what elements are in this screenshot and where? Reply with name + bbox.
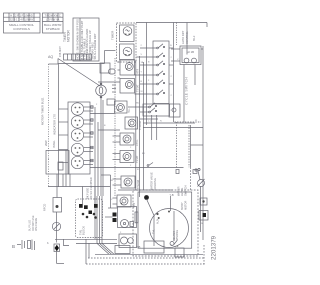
svg-text:B: B bbox=[12, 244, 15, 249]
svg-text:TML: TML bbox=[153, 228, 156, 234]
svg-text:Y-B: Y-B bbox=[170, 193, 174, 197]
svg-text:BK-2: BK-2 bbox=[193, 35, 196, 41]
svg-text:HI-L: HI-L bbox=[128, 108, 131, 113]
svg-text:156 MOT: 156 MOT bbox=[58, 46, 62, 57]
svg-text:BK FUSE: BK FUSE bbox=[86, 188, 90, 199]
svg-text:S2 B 1 2 4 F L0WAY: S2 B 1 2 4 F L0WAY bbox=[10, 18, 34, 22]
svg-text:SB ALL PRGRM DRY: SB ALL PRGRM DRY bbox=[93, 33, 97, 59]
svg-text:THERM: THERM bbox=[139, 121, 142, 130]
svg-text:INDICATOR LTS: INDICATOR LTS bbox=[53, 114, 57, 135]
svg-text:H 3 2 F 1 F L0WAD: H 3 2 F 1 F L0WAD bbox=[10, 13, 33, 17]
svg-text:TIMER: TIMER bbox=[111, 30, 115, 40]
svg-text:2KW: 2KW bbox=[44, 140, 48, 146]
svg-text:Y-B: Y-B bbox=[136, 245, 141, 249]
svg-text:BU: BU bbox=[136, 103, 139, 105]
svg-text:WINDING: WINDING bbox=[176, 230, 179, 241]
svg-text:ON 2-WIRE: ON 2-WIRE bbox=[35, 217, 38, 231]
svg-text:T/NOW KW C: T/NOW KW C bbox=[45, 13, 61, 17]
svg-text:TSTAT: TSTAT bbox=[137, 84, 140, 92]
svg-text:LTV FW VA: LTV FW VA bbox=[46, 18, 60, 22]
svg-text:KTWB120: KTWB120 bbox=[46, 27, 60, 31]
svg-text:CONTROL: CONTROL bbox=[185, 31, 189, 44]
svg-text:MOTOR: MOTOR bbox=[67, 29, 71, 42]
svg-text:AUX: AUX bbox=[157, 219, 160, 224]
svg-text:RFCD: RFCD bbox=[43, 204, 47, 211]
svg-text:HI 1B: HI 1B bbox=[187, 50, 194, 54]
svg-text:CYCLE SWITCH: CYCLE SWITCH bbox=[185, 77, 189, 105]
svg-text:WATER VALVE: WATER VALVE bbox=[150, 172, 154, 190]
svg-text:MOTOR-TIMER BU11: MOTOR-TIMER BU11 bbox=[41, 97, 45, 125]
svg-text:CONTROLS: CONTROLS bbox=[13, 27, 30, 31]
svg-text:TSTAT: TSTAT bbox=[136, 155, 139, 163]
svg-text:C: C bbox=[171, 243, 173, 247]
svg-text:THERM: THERM bbox=[137, 180, 140, 189]
svg-text:INSUL: INSUL bbox=[52, 140, 56, 148]
svg-text:OF NO CHOPPER: OF NO CHOPPER bbox=[89, 177, 93, 199]
svg-text:WATER: WATER bbox=[177, 187, 181, 196]
svg-text:HOLDING: HOLDING bbox=[153, 178, 157, 190]
svg-text:AUTO DRY: AUTO DRY bbox=[181, 30, 185, 44]
svg-text:AQ: AQ bbox=[48, 55, 53, 59]
svg-text:MOTOR: MOTOR bbox=[185, 201, 188, 210]
svg-text:LEVEL: LEVEL bbox=[180, 187, 184, 196]
svg-text:NOTE: SW SHOWN IN OFF POS: NOTE: SW SHOWN IN OFF POS bbox=[76, 19, 80, 60]
svg-text:HTR: HTR bbox=[137, 69, 140, 74]
svg-text:HTR: HTR bbox=[133, 203, 136, 208]
svg-text:CYCL: CYCL bbox=[136, 139, 139, 146]
svg-text:BLOCK: BLOCK bbox=[82, 226, 86, 235]
svg-text:SWITCH: SWITCH bbox=[184, 185, 188, 196]
svg-text:2201379: 2201379 bbox=[211, 235, 218, 260]
svg-text:BU: BU bbox=[110, 180, 113, 182]
